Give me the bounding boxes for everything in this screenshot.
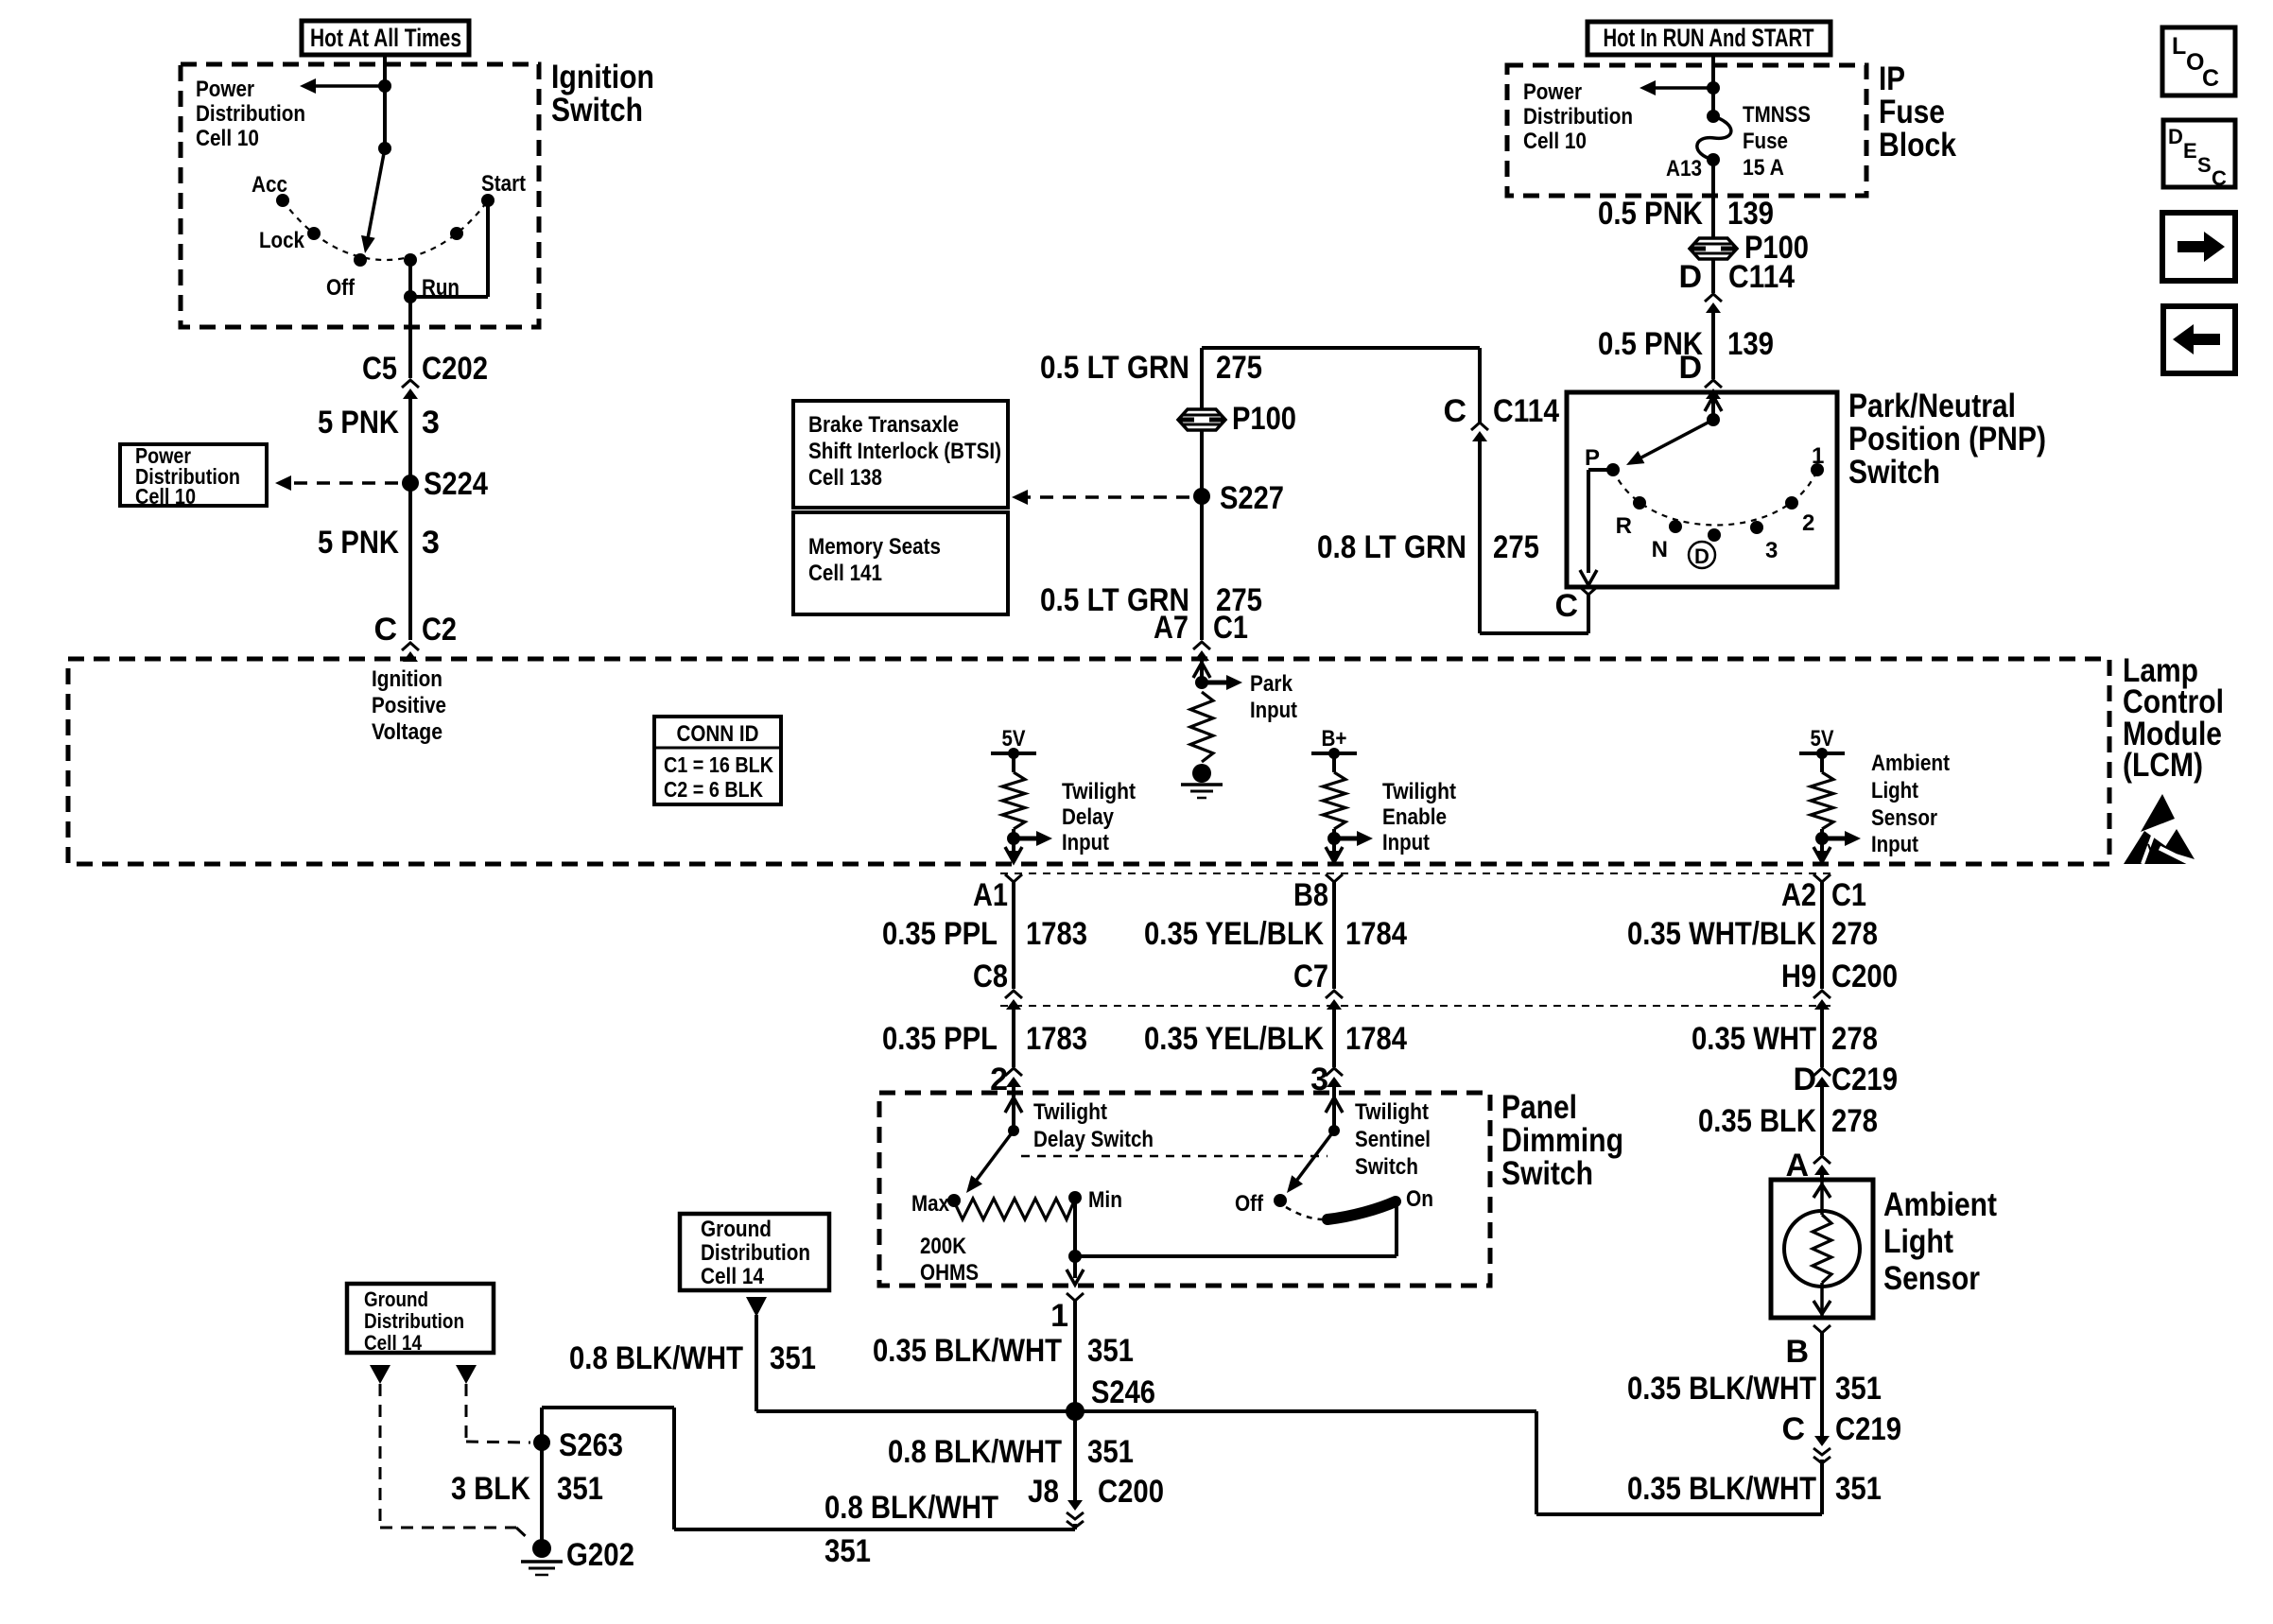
park/neutral position switch box (1567, 392, 1837, 587)
svg-text:3: 3 (1765, 538, 1778, 563)
svg-text:Ground: Ground (701, 1217, 772, 1242)
svg-text:N: N (1652, 537, 1668, 562)
svg-text:D: D (2168, 125, 2183, 148)
svg-text:0.35 YEL/BLK: 0.35 YEL/BLK (1144, 1021, 1324, 1057)
twilight sentinel switch wire (1332, 1093, 1336, 1131)
svg-text:D: D (1678, 350, 1702, 386)
contact N (1669, 520, 1682, 533)
svg-text:Park/Neutral: Park/Neutral (1848, 388, 2016, 424)
svg-text:R: R (1616, 513, 1632, 539)
svg-text:Cell 10: Cell 10 (135, 484, 196, 509)
svg-text:0.35 WHT/BLK: 0.35 WHT/BLK (1627, 916, 1816, 952)
svg-text:Cell 141: Cell 141 (808, 561, 882, 586)
dashed reference arrow to power distribution (290, 481, 398, 485)
wire corner to middle column (1202, 346, 1480, 350)
ignition switch movable contact arm (368, 148, 385, 238)
svg-text:Ground: Ground (364, 1287, 428, 1311)
svg-text:2: 2 (1802, 510, 1814, 536)
svg-text:351: 351 (557, 1471, 603, 1507)
svg-text:0.35 WHT: 0.35 WHT (1692, 1021, 1816, 1057)
svg-text:Switch: Switch (551, 92, 643, 129)
sensor wire top (1820, 1180, 1824, 1215)
node: twilight delay switch pivot (1008, 1125, 1019, 1136)
contact 2 (1785, 496, 1798, 510)
svg-text:Shift Interlock (BTSI): Shift Interlock (BTSI) (808, 439, 1001, 464)
contact Off (354, 253, 367, 267)
svg-text:Cell 14: Cell 14 (701, 1264, 765, 1289)
contact Run (404, 253, 417, 267)
node: twilight sentinel pivot (1328, 1125, 1340, 1136)
sensor wire bottom (1820, 1283, 1824, 1318)
svg-text:C2: C2 (422, 612, 457, 648)
wire 0.35 WHT 278 (1820, 1006, 1824, 1067)
svg-text:351: 351 (1087, 1333, 1134, 1369)
svg-text:CONN ID: CONN ID (677, 721, 759, 747)
svg-text:D: D (1694, 544, 1709, 568)
svg-text:C219: C219 (1835, 1411, 1901, 1447)
svg-text:A1: A1 (973, 877, 1008, 913)
ground distribution box (left) (347, 1284, 494, 1353)
wire 0.8 LT GRN up to corner (1478, 348, 1482, 423)
LOC button (2162, 27, 2235, 95)
svg-text:C219: C219 (1831, 1062, 1898, 1097)
svg-text:Delay: Delay (1062, 804, 1115, 830)
node: ignition feed dot (378, 142, 391, 155)
reference box: Memory Seats Cell 141 (793, 512, 1008, 614)
svg-text:278: 278 (1831, 1103, 1878, 1139)
wire 0.35 BLK 278 (1820, 1083, 1824, 1155)
ESD sensitivity symbol (2141, 794, 2175, 832)
svg-text:Light: Light (1871, 778, 1918, 803)
ground distribution drop triangle (left b) (456, 1365, 477, 1384)
svg-text:Input: Input (1382, 830, 1430, 855)
contact Off (1274, 1194, 1287, 1207)
park input arrow (1202, 681, 1227, 685)
svg-text:Ignition: Ignition (551, 59, 654, 95)
wire bottom right return (1536, 1512, 1822, 1516)
ignition switch dashed box (181, 64, 539, 327)
contact Min (1068, 1191, 1082, 1204)
DESC button (2163, 120, 2235, 187)
dashed ground reference to S263 (465, 1384, 468, 1442)
node: splice S263 (533, 1434, 550, 1451)
svg-text:3: 3 (422, 405, 440, 441)
svg-text:278: 278 (1831, 916, 1878, 952)
twilight delay switch wire (1012, 1093, 1015, 1131)
conn id table (654, 717, 781, 804)
wire to power distribution arrow (fuse block) (1656, 86, 1713, 90)
node: splice S227 (1193, 488, 1210, 505)
svg-text:Sentinel: Sentinel (1355, 1127, 1431, 1152)
svg-text:Input: Input (1250, 698, 1297, 723)
sentinel switch blade (On) (1327, 1201, 1396, 1219)
svg-text:0.35 BLK/WHT: 0.35 BLK/WHT (873, 1333, 1062, 1369)
contact R (1633, 496, 1646, 510)
node: Run/Start junction (404, 290, 417, 303)
svg-text:5V: 5V (1002, 726, 1026, 752)
svg-text:Cell 10: Cell 10 (196, 126, 259, 151)
svg-text:Off: Off (1235, 1191, 1264, 1217)
svg-text:P: P (1585, 445, 1600, 471)
svg-text:C200: C200 (1831, 959, 1898, 994)
harness dashed line (C200 connector plane) (1000, 1005, 1834, 1007)
wire 0.35 YEL/BLK 1784 (upper) (1332, 882, 1336, 989)
wire P100 to LCM (1200, 430, 1204, 640)
wire into fuse block (1711, 55, 1715, 116)
svg-text:Power: Power (1523, 79, 1582, 105)
reference box: Brake Transaxle Shift Interlock (BTSI) Cell 138 (793, 401, 1008, 508)
svg-text:L: L (2172, 33, 2186, 60)
wire to power distribution arrow (316, 84, 385, 88)
twilight delay switch arm (977, 1131, 1014, 1180)
svg-text:Fuse: Fuse (1879, 94, 1945, 130)
svg-text:Min: Min (1088, 1187, 1122, 1213)
svg-text:Fuse: Fuse (1743, 129, 1788, 154)
contact Lock (307, 227, 321, 240)
svg-text:0.35 BLK: 0.35 BLK (1698, 1103, 1816, 1139)
svg-text:275: 275 (1216, 350, 1262, 386)
svg-text:Distribution: Distribution (701, 1240, 810, 1266)
wire fuse output (1711, 160, 1715, 238)
svg-text:Memory Seats: Memory Seats (808, 534, 941, 560)
node: splice S246 (1066, 1402, 1084, 1421)
svg-text:B+: B+ (1322, 726, 1347, 752)
svg-text:3 BLK: 3 BLK (451, 1471, 530, 1507)
svg-text:1: 1 (1812, 443, 1824, 469)
twilight sentinel switch arm (1297, 1131, 1334, 1180)
svg-text:S: S (2197, 153, 2212, 177)
next page arrow button (2162, 213, 2235, 281)
svg-text:Delay Switch: Delay Switch (1033, 1127, 1154, 1152)
junction box label: Hot In RUN And START (1588, 22, 1831, 55)
circled D label (1689, 542, 1715, 568)
svg-text:C: C (1781, 1411, 1805, 1447)
wire 5 PNK circuit 3 (upper) (408, 394, 412, 640)
svg-text:A13: A13 (1666, 156, 1702, 181)
svg-text:Twilight: Twilight (1033, 1099, 1107, 1125)
svg-text:C5: C5 (362, 351, 397, 387)
svg-text:351: 351 (1835, 1471, 1882, 1507)
dashed blade travel arc (1286, 1207, 1322, 1219)
svg-text:0.35 YEL/BLK: 0.35 YEL/BLK (1144, 916, 1324, 952)
dashed ground reference to G202 (379, 1384, 382, 1528)
dashed reference arrow to BTSI/Memory Seats (1027, 495, 1189, 499)
sensor internal resistor (1813, 1215, 1831, 1283)
svg-text:Ambient: Ambient (1883, 1186, 1997, 1223)
svg-text:Cell 14: Cell 14 (364, 1331, 423, 1355)
PNP movable contact arm (1640, 420, 1713, 458)
contact (unlabeled) (450, 227, 463, 240)
svg-text:3: 3 (422, 525, 440, 561)
contact Start (481, 194, 495, 207)
svg-text:H9: H9 (1781, 959, 1816, 994)
svg-text:E: E (2183, 139, 2197, 163)
wire park input entering LCM (1200, 659, 1204, 682)
svg-text:Light: Light (1883, 1223, 1953, 1260)
previous page arrow button (2163, 306, 2235, 373)
svg-text:C1: C1 (1213, 610, 1248, 646)
wire 0.5 PNK 139 (lower) (1711, 308, 1715, 379)
ground distribution drop triangle (center) (746, 1297, 767, 1317)
svg-text:278: 278 (1831, 1021, 1878, 1057)
svg-text:Cell 10: Cell 10 (1523, 129, 1587, 154)
svg-text:B: B (1785, 1334, 1809, 1370)
svg-text:Twilight: Twilight (1382, 779, 1456, 804)
svg-text:0.35 PPL: 0.35 PPL (882, 916, 998, 952)
wire 0.35 PPL 1783 (lower) (1012, 1006, 1015, 1067)
node: dimmer output junction (1068, 1250, 1082, 1263)
junction box label: Hot At All Times (302, 21, 469, 55)
svg-text:A2: A2 (1781, 877, 1816, 913)
svg-text:Voltage: Voltage (372, 719, 442, 745)
svg-text:C: C (373, 612, 397, 648)
wire from On contact (1075, 1254, 1397, 1258)
wire S263 to G202 (540, 1408, 544, 1548)
svg-text:Max: Max (911, 1191, 950, 1217)
svg-text:G202: G202 (566, 1537, 634, 1573)
svg-text:D: D (1793, 1062, 1816, 1097)
svg-text:Enable: Enable (1382, 804, 1447, 830)
connector A1 (LCM) (1006, 851, 1021, 861)
svg-text:Hot At All Times: Hot At All Times (310, 24, 461, 52)
connector A2 / C1 (LCM) (1814, 851, 1830, 861)
svg-text:B8: B8 (1293, 877, 1328, 913)
svg-text:Distribution: Distribution (1523, 104, 1633, 130)
svg-text:S227: S227 (1220, 480, 1284, 516)
lamp control module dashed box (68, 659, 2109, 864)
svg-text:On: On (1406, 1186, 1433, 1212)
wire 0.8 BLK/WHT 351 (S246 to J8) (1073, 1411, 1077, 1503)
svg-text:S224: S224 (424, 466, 488, 502)
wire 0.35 BLK/WHT 351 to ground bus (1820, 1460, 1824, 1514)
ground inside LCM (1192, 764, 1211, 783)
ground G202 (532, 1539, 551, 1558)
svg-text:0.8 BLK/WHT: 0.8 BLK/WHT (888, 1434, 1062, 1470)
svg-text:A7: A7 (1154, 610, 1189, 646)
svg-text:Input: Input (1871, 832, 1918, 857)
node: PNP common (1707, 413, 1720, 426)
svg-text:1: 1 (1050, 1298, 1068, 1334)
PNP rotary dashed arc (1613, 470, 1817, 526)
svg-text:Positive: Positive (372, 693, 446, 718)
svg-text:Input: Input (1062, 830, 1109, 855)
svg-text:5 PNK: 5 PNK (318, 525, 399, 561)
svg-text:0.35 PPL: 0.35 PPL (882, 1021, 998, 1057)
svg-text:5V: 5V (1811, 726, 1834, 752)
svg-text:0.35 BLK/WHT: 0.35 BLK/WHT (1627, 1371, 1816, 1407)
svg-text:139: 139 (1727, 326, 1774, 362)
svg-text:Sensor: Sensor (1871, 805, 1937, 831)
svg-text:Dimming: Dimming (1501, 1122, 1623, 1159)
svg-text:C1 = 16 BLK: C1 = 16 BLK (664, 752, 773, 777)
svg-text:C114: C114 (1493, 393, 1559, 429)
wire ground bus (756, 1409, 1536, 1413)
svg-text:S263: S263 (559, 1427, 623, 1463)
connector B8 (LCM) (1327, 851, 1342, 861)
svg-text:C: C (1554, 588, 1578, 624)
svg-text:C1: C1 (1831, 877, 1866, 913)
svg-text:Position (PNP): Position (PNP) (1848, 421, 2046, 458)
node: splice S224 (402, 475, 419, 492)
svg-text:S246: S246 (1091, 1374, 1155, 1410)
svg-text:C: C (2202, 65, 2219, 92)
svg-text:C7: C7 (1293, 959, 1328, 994)
svg-text:C200: C200 (1098, 1474, 1164, 1510)
potentiometer 200K OHMS (954, 1199, 1075, 1219)
svg-text:351: 351 (770, 1340, 816, 1376)
svg-text:Off: Off (326, 275, 356, 301)
wire Run output (408, 260, 412, 378)
svg-text:Switch: Switch (1355, 1154, 1418, 1180)
panel dimming switch dashed box (879, 1093, 1490, 1286)
svg-text:Start: Start (481, 171, 526, 197)
svg-text:0.8 BLK/WHT: 0.8 BLK/WHT (824, 1490, 998, 1526)
wire from Start contact (486, 200, 490, 297)
wire entering PNP switch (1711, 390, 1715, 420)
svg-text:1784: 1784 (1345, 1021, 1407, 1057)
svg-text:C: C (1443, 393, 1466, 429)
svg-text:Distribution: Distribution (196, 101, 305, 127)
wire from P contact to C terminal (1588, 468, 1613, 472)
svg-text:C114: C114 (1728, 259, 1795, 295)
svg-text:Twilight: Twilight (1355, 1099, 1429, 1125)
svg-text:C: C (2212, 166, 2227, 190)
ganged switch dashed link (1021, 1155, 1327, 1158)
svg-text:Lock: Lock (259, 228, 305, 253)
svg-text:351: 351 (824, 1533, 871, 1569)
ambient light sensor box (1771, 1180, 1873, 1318)
svg-text:0.8 LT GRN: 0.8 LT GRN (1317, 529, 1466, 565)
power distribution cell 10 box (120, 444, 267, 506)
wire to C114 (1711, 259, 1715, 293)
svg-text:351: 351 (1087, 1434, 1134, 1470)
svg-text:(LCM): (LCM) (2123, 747, 2203, 784)
grommet P100 (right) (1690, 238, 1737, 259)
svg-text:Park: Park (1250, 671, 1293, 697)
svg-text:139: 139 (1727, 196, 1774, 232)
contact Acc (276, 194, 289, 207)
svg-text:OHMS: OHMS (920, 1260, 979, 1286)
svg-text:Switch: Switch (1501, 1155, 1593, 1192)
contact 1 (1811, 463, 1824, 476)
svg-text:Block: Block (1879, 127, 1956, 164)
harness dashed line (C1 connector plane) (1000, 872, 1834, 874)
ground distribution drop triangle (left a) (370, 1365, 390, 1384)
ground distribution box (center) (680, 1214, 829, 1290)
svg-text:0.8 BLK/WHT: 0.8 BLK/WHT (569, 1340, 743, 1376)
svg-text:P100: P100 (1232, 401, 1296, 437)
svg-text:Switch: Switch (1848, 454, 1940, 491)
node: feed junction dot (378, 79, 391, 93)
svg-text:5 PNK: 5 PNK (318, 405, 399, 441)
svg-text:1783: 1783 (1026, 916, 1087, 952)
svg-text:Acc: Acc (252, 172, 287, 198)
sensor element circle (1784, 1211, 1860, 1287)
svg-text:Sensor: Sensor (1883, 1260, 1980, 1297)
ignition switch rotary dashed arc (283, 200, 488, 260)
svg-text:15 A: 15 A (1743, 155, 1784, 181)
svg-text:C2 = 6 BLK: C2 = 6 BLK (664, 777, 763, 802)
wire 0.8 BLK/WHT 351 to S263 (674, 1528, 1075, 1531)
svg-text:Hot In RUN And START: Hot In RUN And START (1604, 24, 1814, 52)
wire from Hot At All Times into ignition switch (383, 55, 387, 148)
grommet P100 (middle) (1178, 409, 1225, 430)
svg-text:0.5 PNK: 0.5 PNK (1598, 196, 1703, 232)
svg-text:Ignition: Ignition (372, 666, 442, 692)
svg-text:Brake Transaxle: Brake Transaxle (808, 412, 959, 438)
svg-text:D: D (1678, 259, 1702, 295)
panel dimming switch output (1067, 1270, 1084, 1285)
wire 0.35 BLK/WHT 351 (sensor) (1820, 1333, 1824, 1437)
svg-text:Ambient: Ambient (1871, 751, 1950, 776)
wire 0.35 WHT/BLK 278 (1820, 882, 1824, 989)
wire 0.35 PPL 1783 (upper) (1012, 882, 1015, 989)
svg-text:Power: Power (196, 77, 254, 102)
svg-text:Twilight: Twilight (1062, 779, 1136, 804)
svg-text:200K: 200K (920, 1234, 967, 1259)
svg-text:351: 351 (1835, 1371, 1882, 1407)
wire C terminal loop to C114 (1587, 595, 1590, 633)
contact 3 (1750, 521, 1763, 534)
svg-text:IP: IP (1879, 60, 1905, 97)
svg-text:TMNSS: TMNSS (1743, 102, 1811, 128)
fuse TMNSS 15 A (1707, 110, 1720, 123)
contact D (arc) (1708, 528, 1721, 542)
contact P (1606, 463, 1620, 476)
contact Max (947, 1194, 961, 1207)
svg-text:275: 275 (1493, 529, 1539, 565)
svg-text:Panel: Panel (1501, 1089, 1577, 1126)
svg-text:C8: C8 (973, 959, 1008, 994)
node: park input junction (1195, 676, 1208, 689)
svg-text:J8: J8 (1028, 1474, 1059, 1510)
svg-text:0.5 LT GRN: 0.5 LT GRN (1040, 350, 1189, 386)
wire 0.35 YEL/BLK 1784 (lower) (1332, 1006, 1336, 1067)
resistor park input pull-down (1190, 692, 1213, 762)
svg-text:1784: 1784 (1345, 916, 1407, 952)
svg-text:C202: C202 (422, 351, 488, 387)
svg-text:Distribution: Distribution (364, 1309, 464, 1333)
svg-text:0.35 BLK/WHT: 0.35 BLK/WHT (1627, 1471, 1816, 1507)
IP fuse block dashed box (1507, 65, 1866, 196)
svg-text:1783: 1783 (1026, 1021, 1087, 1057)
wire from Min wiper (1073, 1198, 1077, 1278)
node: fuse feed dot (1707, 81, 1720, 95)
svg-text:Cell 138: Cell 138 (808, 465, 882, 491)
